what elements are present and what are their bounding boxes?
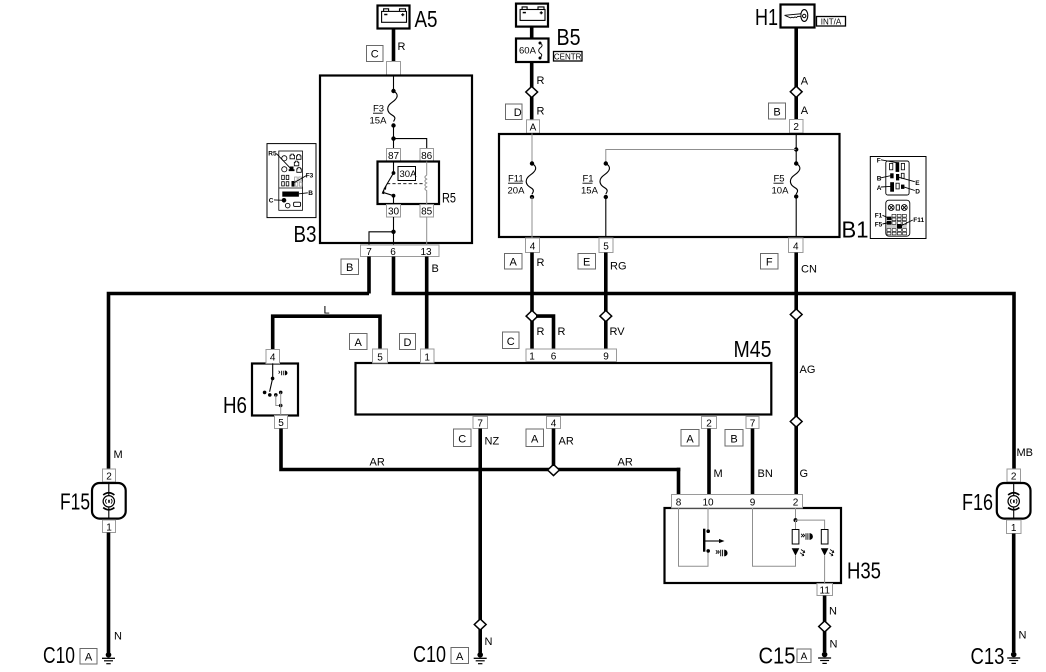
svg-text:C: C: [458, 434, 466, 446]
svg-text:9: 9: [750, 498, 756, 509]
svg-text:A: A: [355, 337, 363, 349]
connector code A: [350, 334, 368, 350]
control unit M45: [356, 363, 772, 415]
wire R from A5 to B3: [392, 29, 396, 71]
connector code D: [506, 104, 523, 120]
svg-text:R: R: [537, 106, 545, 118]
svg-text:MB: MB: [1017, 447, 1034, 459]
svg-text:1: 1: [106, 522, 112, 533]
svg-text:8: 8: [676, 498, 682, 509]
relay coil: [425, 162, 427, 205]
pin 2 at B1 top: [790, 120, 804, 134]
connector code B: [341, 259, 359, 275]
svg-text:F3: F3: [306, 172, 314, 179]
wire A from H1 to B1: [794, 28, 798, 127]
svg-text:R5: R5: [268, 151, 277, 158]
splice diamond AG/G: [790, 416, 802, 427]
pin9 loop: [753, 508, 796, 566]
svg-text:F: F: [877, 157, 881, 164]
relay switch: [393, 162, 395, 174]
pin 85: [420, 205, 434, 218]
splice diamond on NZ: [474, 619, 486, 630]
svg-text:2: 2: [706, 418, 712, 429]
svg-text:D: D: [514, 107, 522, 119]
svg-text:C10: C10: [43, 642, 75, 668]
svg-text:NZ: NZ: [485, 436, 500, 448]
wire AR corner down to H35 pin8: [677, 468, 681, 495]
relay 30A box: [398, 167, 417, 181]
wire 30 to node: [393, 217, 395, 232]
fog icon: [716, 550, 728, 557]
svg-text:AR: AR: [618, 457, 633, 469]
splice diamond AR: [548, 464, 560, 475]
wire battery B5 to fuse box: [530, 27, 534, 39]
M45 pin 2 bottom: [702, 417, 717, 430]
LED lamp 2: [821, 548, 829, 556]
wire H6 pin5 to AR run: [281, 429, 680, 470]
splice diamond N: [819, 621, 831, 632]
splice diamond: [790, 86, 802, 97]
relay R5: [378, 162, 440, 205]
connector code A bottom2: [681, 430, 699, 447]
svg-text:H35: H35: [847, 558, 881, 584]
connector code C: [367, 46, 384, 62]
svg-text:N: N: [829, 606, 837, 618]
svg-text:4: 4: [551, 418, 557, 429]
svg-text:G: G: [800, 468, 809, 480]
H6 internals: [272, 364, 274, 379]
main run left: B3 pin7 to F15: [109, 294, 370, 470]
resistor: [792, 530, 799, 545]
wire N H35 to ground C15: [823, 596, 827, 653]
svg-text:R5: R5: [442, 191, 456, 206]
svg-text:1: 1: [1011, 523, 1017, 534]
M45 top connector strip C pins 1 6 9: [526, 349, 617, 362]
H6 fog icon: [279, 371, 288, 376]
node: [391, 89, 395, 93]
splice diamond R: [526, 311, 538, 322]
svg-text:B5: B5: [557, 24, 581, 50]
svg-text:2: 2: [106, 472, 112, 483]
svg-text:20A: 20A: [508, 186, 526, 197]
svg-text:CN: CN: [801, 264, 817, 276]
resistor 2: [821, 530, 828, 545]
svg-text:N: N: [114, 631, 122, 643]
svg-text:C15: C15: [759, 643, 796, 669]
fuse F5 10A: [794, 161, 798, 165]
svg-text:M: M: [114, 449, 123, 461]
svg-text:INT/A: INT/A: [821, 17, 842, 26]
svg-text:A: A: [801, 652, 808, 663]
svg-text:F5: F5: [875, 222, 883, 229]
battery B5: [516, 4, 548, 27]
connector code F: [761, 254, 779, 270]
svg-text:7: 7: [477, 418, 483, 429]
battery A5: [378, 6, 410, 29]
node: [794, 147, 798, 151]
fusebox B3: [320, 76, 472, 244]
svg-text:87: 87: [388, 151, 400, 162]
fuse F1 15A: [604, 161, 608, 165]
connector code A: [505, 254, 523, 270]
svg-text:A: A: [801, 76, 809, 88]
svg-text:R: R: [537, 257, 545, 269]
switch bar: [703, 529, 705, 552]
svg-text:C: C: [507, 336, 515, 348]
svg-text:11: 11: [820, 585, 831, 596]
wire R from B5 to B1: [530, 62, 534, 127]
svg-text:D: D: [404, 337, 412, 349]
svg-text:6: 6: [551, 352, 557, 363]
svg-text:R: R: [537, 326, 545, 338]
label CENTR: [554, 52, 583, 62]
svg-text:M: M: [714, 468, 723, 480]
svg-text:E: E: [915, 180, 920, 187]
wire N F16 to ground: [1012, 534, 1016, 653]
svg-text:H6: H6: [223, 392, 247, 418]
branch R to M45 pin6: [536, 316, 554, 349]
switch arrow: [704, 540, 719, 542]
switch contacts: [706, 529, 710, 533]
wire 85 to pin13: [426, 217, 428, 245]
svg-text:86: 86: [421, 151, 433, 162]
svg-text:F16: F16: [962, 489, 993, 515]
wire CN/AG/G B1 pin4 to H35 pin2: [794, 253, 798, 495]
svg-text:2: 2: [793, 498, 799, 509]
svg-text:10A: 10A: [772, 186, 790, 197]
wire into B3: [393, 76, 395, 92]
main run right: B3 pin6 to F16: [392, 294, 1014, 470]
svg-text:C: C: [269, 197, 274, 204]
svg-text:B: B: [730, 434, 737, 446]
svg-text:B1: B1: [842, 217, 869, 243]
M45 pin 4 bottom: [547, 417, 561, 430]
H35 connector strip: [672, 495, 803, 509]
svg-text:6: 6: [390, 247, 396, 258]
H35 pin 11: [817, 584, 833, 597]
svg-text:N: N: [830, 639, 838, 651]
splice diamond: [526, 86, 538, 97]
svg-text:A: A: [801, 105, 809, 117]
svg-text:85: 85: [421, 207, 433, 218]
svg-text:7: 7: [750, 418, 756, 429]
svg-text:5: 5: [377, 352, 383, 363]
connector code C bottom: [454, 429, 472, 447]
svg-text:4: 4: [530, 242, 536, 253]
lead 2 to node: [795, 133, 797, 149]
svg-text:M45: M45: [734, 336, 772, 362]
pin2 lead: [795, 508, 797, 520]
svg-text:5: 5: [603, 242, 609, 253]
svg-text:4: 4: [270, 353, 276, 364]
svg-text:A: A: [686, 434, 694, 446]
svg-text:B: B: [308, 190, 313, 197]
svg-text:A5: A5: [415, 6, 438, 32]
wire B3 pin7 to main run: [367, 257, 371, 294]
wire M M45 pin2 to H35: [707, 429, 711, 495]
node: [391, 136, 395, 140]
fuse box B5 60A: [516, 39, 549, 63]
svg-text:C10: C10: [413, 641, 446, 667]
fog icon: [801, 533, 813, 540]
svg-text:A: A: [85, 652, 93, 664]
svg-text:7: 7: [366, 247, 372, 258]
svg-text:F: F: [766, 257, 773, 269]
svg-text:A: A: [456, 651, 464, 663]
svg-text:10: 10: [702, 498, 714, 509]
svg-text:H1: H1: [755, 4, 778, 30]
pin 4 under F11: [526, 238, 540, 253]
pin 4 under F5: [789, 238, 804, 253]
svg-text:C13: C13: [971, 643, 1005, 669]
wire AR M45 pin4 to splice: [552, 429, 556, 467]
svg-text:15A: 15A: [370, 116, 388, 127]
M45 pin 7b bottom: [746, 417, 759, 430]
svg-text:15A: 15A: [581, 186, 599, 197]
svg-text:N: N: [1019, 630, 1027, 642]
branch to second lamp: [796, 520, 825, 529]
svg-text:F15: F15: [60, 489, 90, 515]
pin 30: [387, 205, 401, 218]
B3 location inset: [267, 144, 316, 218]
M45 pin 7 bottom: [473, 417, 488, 430]
wire BN M45 pin7b to H35: [751, 429, 755, 495]
wire RG/RV B1 pin5 to M45 pin9: [604, 253, 608, 350]
svg-text:1: 1: [424, 352, 430, 363]
svg-text:13: 13: [420, 247, 432, 258]
svg-text:9: 9: [603, 352, 609, 363]
connector code E: [578, 254, 596, 270]
svg-text:A: A: [510, 257, 518, 269]
fuse F3 15A: [388, 91, 397, 121]
connector at B3 top: [387, 62, 401, 76]
M45 pin 5 top: [373, 349, 388, 363]
fog lamp unit H35: [665, 508, 842, 583]
svg-text:B: B: [773, 107, 780, 119]
pin 87: [387, 149, 401, 163]
connector code B bottom: [725, 430, 743, 447]
H6 pin 4: [266, 350, 280, 364]
svg-text:AG: AG: [800, 364, 816, 376]
svg-text:R: R: [398, 41, 406, 53]
connector code D: [400, 334, 416, 350]
svg-text:4: 4: [793, 242, 799, 253]
fusebox B1: [499, 134, 840, 237]
svg-text:B: B: [432, 263, 439, 275]
svg-text:2: 2: [1011, 472, 1017, 483]
svg-text:2: 2: [793, 122, 799, 133]
svg-text:A: A: [531, 434, 539, 446]
svg-text:F1: F1: [875, 213, 883, 220]
wire NZ M45 pin7 to ground C10: [478, 429, 482, 653]
B1 location inset: [870, 157, 926, 239]
wire: [393, 126, 395, 139]
switch H6: [252, 364, 298, 416]
wire R B1 pin4 to M45: [530, 253, 534, 350]
relay dashed link: [387, 183, 425, 185]
svg-text:E: E: [583, 257, 590, 269]
H6 pin 5: [275, 416, 288, 430]
svg-text:RG: RG: [610, 261, 627, 273]
svg-text:F11: F11: [913, 217, 924, 224]
svg-text:R: R: [558, 326, 566, 338]
svg-text:B3: B3: [294, 221, 317, 247]
wire N F15 to ground: [107, 533, 111, 653]
wire B3 pin6 to main run right: [392, 257, 396, 296]
svg-text:BN: BN: [758, 468, 773, 480]
svg-text:30: 30: [388, 207, 400, 218]
svg-text:CENTR: CENTR: [554, 52, 582, 61]
splice diamond RV: [600, 311, 612, 322]
splice diamond: [790, 309, 802, 320]
svg-text:5: 5: [278, 418, 284, 429]
connector code C: [503, 332, 520, 349]
pin A at B1 top: [527, 120, 540, 134]
svg-text:A: A: [530, 122, 537, 133]
svg-text:60A: 60A: [519, 46, 537, 57]
LED lamp: [792, 548, 800, 556]
B3 bottom connector strip: [361, 245, 440, 257]
svg-text:N: N: [485, 636, 493, 648]
svg-text:RV: RV: [610, 326, 626, 338]
fuse F11 20A: [530, 161, 534, 165]
lead A to F11: [531, 133, 533, 163]
svg-text:30A: 30A: [400, 169, 418, 180]
svg-text:AR: AR: [370, 457, 385, 469]
lead node to F5: [795, 150, 797, 164]
pin 5 under F1: [599, 238, 613, 253]
svg-text:C: C: [371, 49, 379, 61]
gray link to F1: [606, 150, 796, 164]
connector code A bottom: [526, 429, 544, 447]
M45 pin 1 top: [421, 349, 435, 363]
H35 internal: pin8 loop: [679, 508, 709, 566]
svg-text:B: B: [346, 262, 353, 274]
wire B3 pin13 to M45 pin1: [425, 257, 429, 350]
wire node to pin7: [369, 232, 394, 245]
svg-text:D: D: [915, 188, 920, 195]
pin 86: [420, 149, 434, 163]
connector code B: [769, 103, 786, 119]
svg-text:B: B: [877, 176, 882, 183]
svg-text:AR: AR: [559, 436, 574, 448]
svg-text:A: A: [877, 185, 882, 192]
node: [391, 230, 395, 234]
label INT/A: [817, 17, 846, 27]
svg-text:L: L: [324, 305, 330, 317]
wire to relay pins: [394, 139, 427, 149]
wire L: H6 pin4 to M45 pin5: [273, 316, 380, 363]
svg-text:1: 1: [529, 352, 535, 363]
svg-text:R: R: [537, 75, 545, 87]
pin10 lead: [707, 508, 709, 531]
